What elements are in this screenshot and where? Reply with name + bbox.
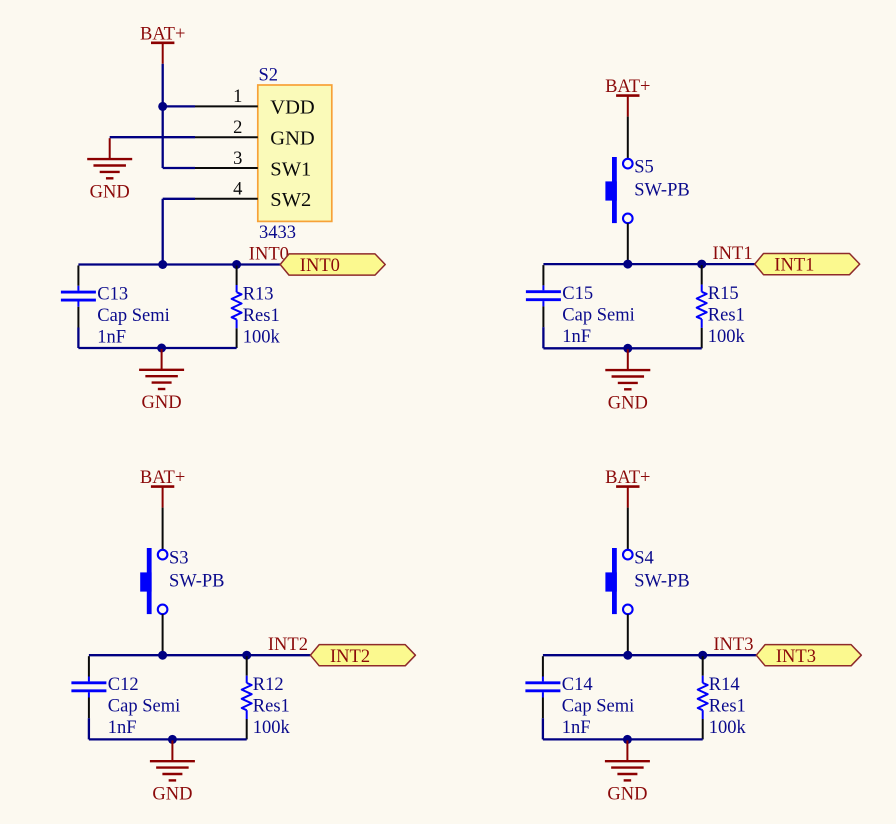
svg-text:C13: C13 [97,285,128,305]
svg-text:BAT+: BAT+ [605,468,650,488]
svg-text:BAT+: BAT+ [140,468,185,488]
svg-text:R13: R13 [243,285,274,305]
svg-text:INT3: INT3 [776,647,816,667]
svg-text:INT2: INT2 [268,635,308,655]
svg-text:2: 2 [233,118,242,138]
svg-text:1nF: 1nF [562,327,591,347]
svg-text:Res1: Res1 [253,697,290,717]
svg-text:Res1: Res1 [709,697,746,717]
svg-text:100k: 100k [709,718,747,738]
svg-text:GND: GND [142,393,182,413]
svg-text:S4: S4 [634,549,654,569]
svg-text:Res1: Res1 [708,306,745,326]
svg-text:1nF: 1nF [108,718,137,738]
svg-text:1nF: 1nF [562,718,591,738]
svg-text:1nF: 1nF [97,328,126,348]
svg-text:Cap Semi: Cap Semi [108,697,180,717]
svg-text:VDD: VDD [270,97,314,119]
svg-text:GND: GND [152,784,192,804]
svg-text:SW2: SW2 [270,189,311,211]
svg-text:3433: 3433 [259,223,296,243]
svg-text:GND: GND [608,393,648,413]
svg-text:Cap Semi: Cap Semi [562,697,634,717]
svg-text:Cap Semi: Cap Semi [562,306,634,326]
svg-text:3: 3 [233,149,242,169]
svg-text:BAT+: BAT+ [605,77,650,97]
svg-text:INT1: INT1 [713,244,753,264]
svg-text:C15: C15 [562,284,593,304]
svg-text:S5: S5 [634,158,654,178]
svg-text:Cap Semi: Cap Semi [97,306,169,326]
svg-text:C14: C14 [562,675,593,695]
svg-text:4: 4 [233,180,242,200]
svg-text:SW-PB: SW-PB [169,572,225,592]
svg-text:R12: R12 [253,675,284,695]
svg-text:GND: GND [607,784,647,804]
svg-text:S3: S3 [169,549,189,569]
svg-text:C12: C12 [108,675,139,695]
svg-text:GND: GND [270,128,314,150]
svg-text:SW-PB: SW-PB [634,572,690,592]
svg-text:INT0: INT0 [300,256,340,276]
svg-text:INT3: INT3 [713,635,753,655]
svg-text:BAT+: BAT+ [140,24,185,44]
svg-text:R14: R14 [709,675,740,695]
svg-text:Res1: Res1 [243,306,280,326]
svg-text:R15: R15 [708,284,739,304]
svg-text:SW1: SW1 [270,158,311,180]
svg-text:INT2: INT2 [330,647,370,667]
svg-text:GND: GND [90,182,130,202]
svg-text:100k: 100k [708,327,746,347]
svg-text:INT1: INT1 [774,256,814,276]
svg-text:SW-PB: SW-PB [634,181,690,201]
svg-text:S2: S2 [259,66,279,86]
svg-text:100k: 100k [243,328,281,348]
svg-text:100k: 100k [253,718,291,738]
svg-text:1: 1 [233,87,242,107]
